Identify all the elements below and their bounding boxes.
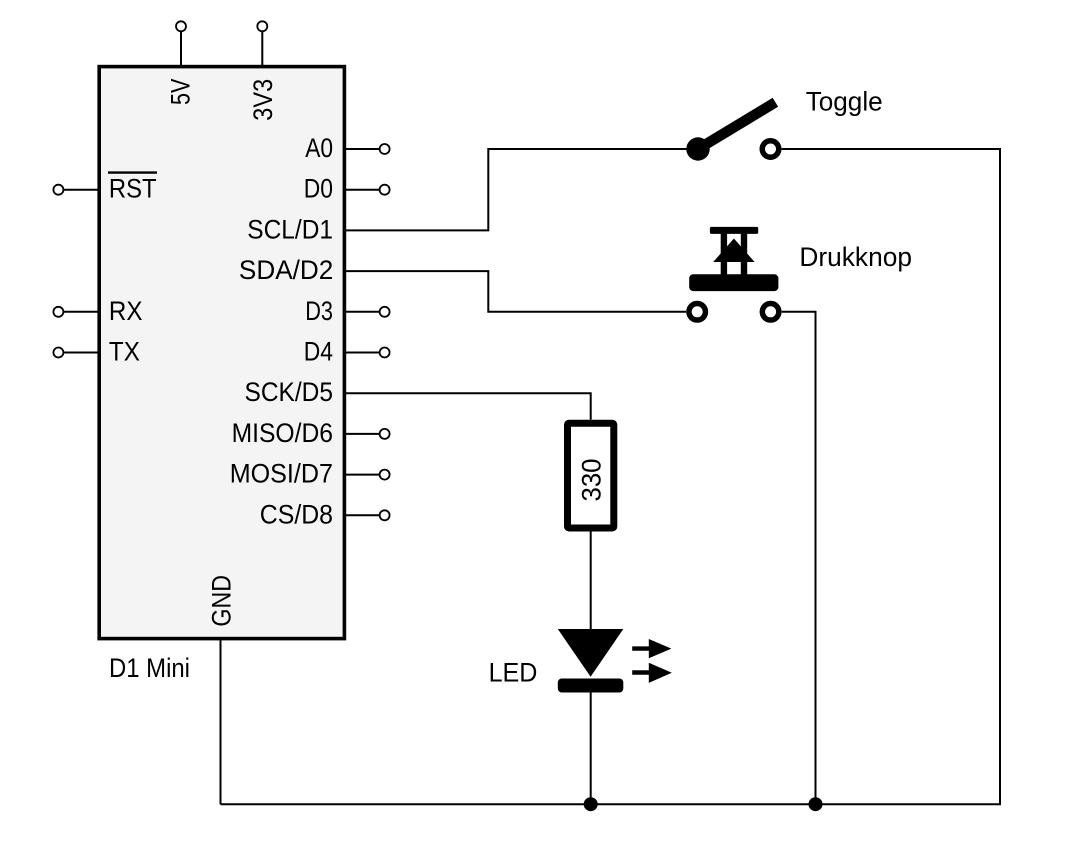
svg-text:TX: TX <box>109 337 140 367</box>
pin MISO/D6 stub <box>346 429 390 439</box>
wire resistor to LED <box>590 532 592 630</box>
svg-text:D3: D3 <box>305 296 333 326</box>
pin D0 stub <box>346 185 390 195</box>
pin D4 stub <box>346 348 390 358</box>
pushbutton left terminal <box>689 304 706 321</box>
pin A0 stub <box>346 144 390 154</box>
svg-text:330: 330 <box>576 459 606 502</box>
toggle open contact <box>762 141 779 158</box>
svg-text:5V: 5V <box>166 79 196 105</box>
svg-text:D1 Mini: D1 Mini <box>109 653 190 683</box>
pin RX stub <box>53 307 98 317</box>
LED anode triangle <box>558 629 624 677</box>
pin D3 stub <box>346 307 390 317</box>
pushbutton S2 Drukknop <box>689 227 779 320</box>
pin CS/D8 stub <box>346 510 390 520</box>
svg-text:Drukknop: Drukknop <box>799 242 912 272</box>
svg-text:D4: D4 <box>304 337 333 367</box>
svg-text:LED: LED <box>489 657 538 687</box>
wire SDA/D2 to pushbutton <box>346 271 686 312</box>
junction pushbutton/bus <box>809 797 823 811</box>
pin 3V3 stub <box>257 21 267 66</box>
resistor R1 <box>568 423 614 528</box>
svg-text:SDA/D2: SDA/D2 <box>239 255 333 285</box>
svg-text:MISO/D6: MISO/D6 <box>232 418 333 448</box>
junction LED/bus <box>584 797 598 811</box>
svg-text:MOSI/D7: MOSI/D7 <box>230 459 333 489</box>
svg-text:SCK/D5: SCK/D5 <box>245 377 334 407</box>
pin MOSI/D7 stub <box>346 470 390 480</box>
pushbutton right post <box>741 231 747 276</box>
LED light arrow 1 <box>632 639 671 658</box>
toggle pivot dot <box>686 137 709 160</box>
RST overline <box>108 171 157 173</box>
pushbutton left post <box>721 231 727 276</box>
pushbutton actuator arrow <box>713 239 754 263</box>
pin TX stub <box>53 348 98 358</box>
wire LED to bus <box>590 693 592 805</box>
pin 5V stub <box>176 21 186 66</box>
LED cathode bar <box>558 679 624 693</box>
LED D1 <box>558 629 672 693</box>
wire toggle to right bus <box>221 149 1001 804</box>
wire GND to bus <box>220 639 222 805</box>
svg-text:Toggle: Toggle <box>806 87 883 117</box>
svg-text:GND: GND <box>207 575 237 627</box>
IC body U1 D1 Mini <box>99 67 344 639</box>
svg-text:D0: D0 <box>304 174 333 204</box>
pushbutton base bar <box>689 274 778 291</box>
svg-text:RX: RX <box>109 296 143 326</box>
toggle lever <box>698 102 775 149</box>
wire SCK/D5 to resistor <box>346 393 591 420</box>
svg-text:3V3: 3V3 <box>248 79 278 121</box>
pushbutton cap bar <box>710 227 758 234</box>
toggle switch S1 <box>686 102 778 160</box>
pushbutton right terminal <box>762 304 779 321</box>
svg-text:A0: A0 <box>305 133 333 163</box>
wire SCL/D1 to toggle <box>346 149 698 230</box>
svg-text:CS/D8: CS/D8 <box>260 499 333 529</box>
svg-text:RST: RST <box>109 174 157 204</box>
pin RST stub <box>53 185 98 195</box>
svg-text:SCL/D1: SCL/D1 <box>247 214 333 244</box>
wire pushbutton to bus <box>782 312 816 804</box>
LED light arrow 2 <box>632 663 672 683</box>
